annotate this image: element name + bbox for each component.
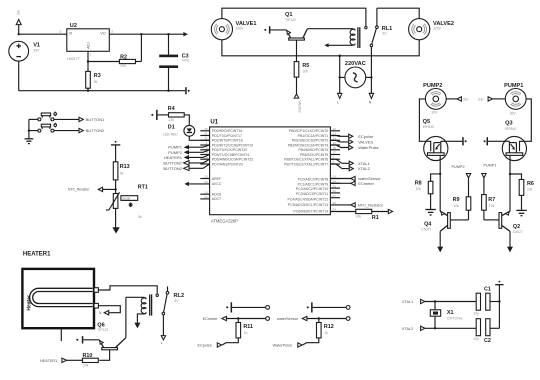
wire U2 VO to output	[109, 33, 183, 35]
power terminal above R13	[111, 141, 120, 162]
svg-text:ECpulse: ECpulse	[358, 134, 374, 139]
svg-text:R2: R2	[120, 54, 127, 60]
svg-text:33v: 33v	[17, 10, 21, 16]
svg-text:U1: U1	[210, 119, 218, 125]
svg-text:ECpulse: ECpulse	[198, 344, 212, 348]
ground rail bottom-left	[19, 90, 186, 92]
svg-text:C2: C2	[484, 338, 491, 344]
svg-text:BUTTON2: BUTTON2	[163, 166, 182, 171]
svg-text:WaterPulse: WaterPulse	[358, 145, 379, 150]
node bar terminal right of Q5	[448, 137, 467, 145]
resistor R3	[86, 62, 101, 92]
svg-text:V1: V1	[33, 42, 40, 48]
svg-text:HEATER1: HEATER1	[23, 252, 51, 258]
node ECpulse arrow right of U1	[330, 134, 374, 139]
node bar terminal left of Q3	[484, 137, 503, 145]
svg-text:220VAC: 220VAC	[345, 61, 366, 67]
svg-text:IRF840: IRF840	[423, 125, 434, 129]
wire V1 to U2	[19, 33, 67, 35]
svg-text:ECmeter: ECmeter	[358, 181, 374, 186]
svg-text:5V: 5V	[382, 32, 387, 36]
svg-text:27: 27	[332, 194, 336, 198]
svg-text:PC6/RESET/PCINT14: PC6/RESET/PCINT14	[293, 209, 328, 213]
node WaterSensor arrow right of U1	[330, 176, 381, 181]
wire heater top terminal to RL2 contact	[98, 286, 157, 294]
resistor R4	[168, 106, 190, 125]
svg-text:PD1/TXD/PCINT17: PD1/TXD/PCINT17	[212, 134, 242, 138]
svg-text:HEATER1: HEATER1	[164, 155, 183, 160]
node power arrow below RT1	[112, 227, 119, 233]
node VALVES arrow right of U1	[330, 139, 373, 144]
capacitor C3	[159, 34, 189, 92]
wire Q5 source junction	[439, 173, 441, 175]
svg-text:R10: R10	[83, 353, 93, 359]
svg-text:D1: D1	[168, 124, 175, 130]
svg-text:29: 29	[332, 208, 336, 212]
mcu U1 right pin stubs PC0-PC6	[330, 175, 340, 212]
node power arrow below Q2	[507, 247, 513, 253]
mcu U1 pin labels left	[212, 129, 253, 201]
node ECpulse arrow	[198, 343, 222, 348]
svg-text:X1: X1	[447, 310, 454, 316]
node bar terminal R11 circuit top	[226, 302, 266, 312]
node bar terminal at Q1 emitter	[264, 26, 286, 33]
wire V1 down to rail	[18, 61, 20, 91]
LED D1	[163, 124, 210, 140]
svg-text:PD7/AIN1/PCINT23: PD7/AIN1/PCINT23	[212, 162, 243, 166]
resistor R9	[453, 197, 471, 220]
svg-text:10k: 10k	[454, 204, 460, 208]
svg-text:CRYSTAL: CRYSTAL	[447, 317, 463, 321]
svg-text:PD4/T0/XCK/PCINT20: PD4/T0/XCK/PCINT20	[212, 148, 247, 152]
relay RL1	[324, 8, 392, 48]
ground bar terminal at rail end	[185, 87, 190, 94]
svg-text:PB5/SCK/PCINT5: PB5/SCK/PCINT5	[300, 153, 328, 157]
resistor R7	[482, 195, 496, 220]
svg-text:C5027: C5027	[421, 228, 431, 232]
svg-text:PB7/TOSC2/XTAL2/PCINT7: PB7/TOSC2/XTAL2/PCINT7	[284, 162, 328, 166]
svg-text:33v: 33v	[463, 97, 469, 101]
svg-text:PUMP1: PUMP1	[504, 83, 523, 89]
svg-text:XTAL2: XTAL2	[358, 166, 371, 171]
svg-text:LM317T: LM317T	[67, 57, 81, 61]
svg-text:10k: 10k	[489, 204, 495, 208]
svg-text:26: 26	[332, 189, 336, 193]
svg-text:5k: 5k	[120, 171, 124, 175]
wire Q5 source to Q4	[439, 174, 441, 211]
resistor R12	[303, 319, 334, 346]
svg-text:33V: 33V	[33, 49, 40, 53]
svg-text:VO: VO	[100, 32, 105, 36]
node WaterPulse arrow	[273, 343, 303, 348]
transistor Q1 TIP122	[285, 12, 307, 61]
node bar terminal R12 circuit top	[307, 302, 347, 312]
svg-text:1: 1	[90, 53, 92, 57]
svg-text:XTAL1: XTAL1	[358, 161, 371, 166]
svg-text:1k: 1k	[244, 331, 248, 335]
svg-text:220V: 220V	[433, 27, 442, 31]
node 33v terminal left of PUMP1	[478, 97, 505, 102]
svg-text:220V: 220V	[236, 27, 245, 31]
node HEATER1 terminal left of R10	[40, 358, 67, 363]
mcu U1 pin labels right	[284, 129, 328, 213]
svg-text:1k: 1k	[324, 331, 328, 335]
node ECmeter arrow	[203, 316, 266, 321]
svg-text:WaterPulse: WaterPulse	[273, 344, 292, 348]
svg-text:ADC7: ADC7	[212, 197, 221, 201]
svg-text:20: 20	[204, 175, 208, 179]
svg-text:22: 22	[204, 195, 208, 199]
resistor R1	[330, 209, 392, 221]
svg-text:R13: R13	[120, 164, 130, 170]
node output arrow 5V	[183, 32, 188, 36]
button BUTTON1	[29, 112, 105, 122]
wire Q3 source to Q2	[509, 174, 511, 211]
svg-text:BUTTON1: BUTTON1	[86, 117, 105, 122]
mcu U1 left pin stubs PD0-PD7	[200, 127, 209, 164]
node PUMP1 input terminal above R7	[482, 163, 497, 194]
node HEATER1 arrow left of U1	[164, 155, 210, 160]
probe electrode top R12	[346, 306, 350, 310]
crystal X1	[430, 302, 463, 329]
node ECmeter arrow right of U1	[330, 181, 374, 186]
node VALVES input terminal below R5	[294, 94, 301, 114]
node NTC_Resistor arrow right of U1	[330, 202, 383, 207]
svg-text:10k: 10k	[527, 187, 533, 191]
svg-text:5k: 5k	[138, 215, 142, 219]
svg-text:25: 25	[332, 184, 336, 188]
node bar terminal at Q6 emitter	[76, 336, 99, 343]
node BUTTON1 arrow left of U1	[163, 159, 209, 165]
svg-text:Q3: Q3	[505, 120, 512, 126]
node PUMP1 arrow left of U1	[168, 145, 209, 150]
svg-text:L: L	[161, 341, 163, 345]
resistor R5	[294, 62, 309, 94]
svg-text:PB1/OC1A/PCINT1: PB1/OC1A/PCINT1	[298, 134, 329, 138]
node NTC_Resistor terminal left	[68, 187, 116, 191]
svg-text:PD5/T1/OC0B/PCINT21: PD5/T1/OC0B/PCINT21	[212, 153, 250, 157]
svg-text:RT1: RT1	[138, 185, 148, 191]
resistor R8	[415, 174, 441, 210]
relay RL2	[126, 286, 184, 345]
svg-text:PC1/ADC1/PCINT9: PC1/ADC1/PCINT9	[298, 182, 329, 186]
svg-text:L: L	[337, 101, 339, 105]
svg-text:LED-RED: LED-RED	[163, 132, 178, 136]
svg-text:19: 19	[204, 190, 208, 194]
svg-text:PUMP2: PUMP2	[452, 165, 465, 169]
wire VALVE2 top rail	[377, 8, 419, 18]
node PUMP2 input terminal above R9	[452, 165, 471, 197]
svg-text:25.00: 25.00	[122, 197, 130, 201]
svg-text:BUTTON1: BUTTON1	[163, 160, 182, 165]
node 33v terminal right of PUMP2	[446, 97, 468, 102]
capacitor C1	[473, 286, 499, 315]
svg-text:PC0/ADC0/PCINT8: PC0/ADC0/PCINT8	[298, 178, 329, 182]
ground terminal above caps	[495, 281, 503, 285]
svg-text:PB4/MISO/PCINT4: PB4/MISO/PCINT4	[298, 148, 328, 152]
ground below buttons	[25, 139, 34, 144]
svg-text:IRF840: IRF840	[505, 127, 516, 131]
svg-text:R12: R12	[324, 324, 334, 330]
valve VALVE1	[211, 19, 256, 40]
svg-text:30: 30	[204, 127, 208, 131]
node XTAL2 arrow right of U1	[330, 164, 370, 171]
button BUTTON2	[29, 123, 105, 133]
svg-text:U2: U2	[70, 23, 77, 29]
svg-text:30V: 30V	[432, 111, 439, 115]
svg-text:C1: C1	[484, 286, 491, 292]
node XTAL1 terminal	[402, 299, 476, 304]
svg-text:R4: R4	[168, 106, 175, 112]
svg-text:ADC6: ADC6	[212, 193, 221, 197]
node waterSensor arrow	[277, 316, 346, 321]
wire VALVE1 top rail	[222, 8, 366, 26]
heater element tube	[30, 288, 99, 308]
mosfet Q3 IRF840	[502, 120, 526, 174]
svg-text:10k: 10k	[416, 187, 422, 191]
svg-text:R11: R11	[243, 324, 253, 330]
svg-text:220: 220	[169, 118, 175, 122]
regulator U2 LM317T	[67, 23, 113, 61]
mosfet Q5 IRF840	[423, 119, 448, 174]
svg-text:470u: 470u	[182, 59, 190, 63]
svg-text:XTAL1: XTAL1	[402, 300, 413, 304]
wire Q3 source junction	[509, 173, 511, 175]
svg-text:PC3/ADC3/PCINT11: PC3/ADC3/PCINT11	[296, 192, 328, 196]
svg-text:PB2/SS/OC1B/PCINT2: PB2/SS/OC1B/PCINT2	[292, 139, 328, 143]
svg-text:ADJ: ADJ	[86, 42, 90, 49]
wire PUMP2 to Q5 drain	[419, 99, 425, 141]
node power arrow below Q4	[437, 247, 443, 253]
svg-text:R6: R6	[527, 181, 534, 187]
heater box	[22, 269, 94, 328]
node XTAL1 arrow right of U1	[330, 159, 370, 166]
svg-text:NTC_Resistor: NTC_Resistor	[358, 202, 384, 207]
capacitor C2	[473, 319, 499, 344]
motor PUMP2	[423, 83, 446, 115]
transistor Q2 C5027	[484, 211, 523, 246]
svg-text:30V: 30V	[510, 112, 517, 116]
mcu U1 body	[210, 119, 331, 223]
voltage source V1	[9, 41, 40, 61]
source 220VAC	[339, 61, 372, 88]
svg-text:1: 1	[206, 141, 208, 145]
svg-text:R7: R7	[488, 197, 495, 203]
svg-text:waterSensor: waterSensor	[277, 317, 299, 321]
motor PUMP1	[504, 83, 526, 116]
svg-text:R9: R9	[453, 197, 460, 203]
svg-text:PB0/ICP1/CLKO/PCINT0: PB0/ICP1/CLKO/PCINT0	[289, 129, 328, 133]
svg-text:10p: 10p	[473, 311, 479, 315]
svg-text:PB3/MOSI/OC2A/PCINT3: PB3/MOSI/OC2A/PCINT3	[288, 143, 329, 147]
probe electrode bottom R12	[346, 317, 350, 321]
svg-text:12: 12	[332, 127, 336, 131]
node N terminal at heater bottom	[98, 306, 120, 315]
svg-text:10k: 10k	[302, 69, 308, 73]
svg-text:AVCC: AVCC	[212, 182, 222, 186]
node L terminal arrow	[338, 93, 342, 98]
node BUTTON2 arrow left of U1	[163, 164, 209, 171]
svg-text:230: 230	[120, 64, 126, 68]
svg-text:PD6/AIN0/OC0A/PCINT22: PD6/AIN0/OC0A/PCINT22	[212, 158, 253, 162]
svg-text:BUTTON2: BUTTON2	[86, 128, 105, 133]
wire buttons common	[28, 119, 30, 138]
resistor R6	[510, 174, 534, 210]
svg-text:ECmeter: ECmeter	[203, 317, 219, 321]
svg-text:PC2/ADC2/PCINT10: PC2/ADC2/PCINT10	[296, 187, 329, 191]
svg-text:TIP122: TIP122	[285, 18, 296, 22]
svg-text:PUMP2: PUMP2	[423, 83, 442, 89]
svg-text:Q5: Q5	[423, 119, 430, 125]
svg-text:2: 2	[111, 30, 113, 34]
probe electrode bottom R11	[266, 317, 270, 321]
ground below R8	[425, 210, 435, 216]
ground below R6	[516, 210, 526, 215]
wire caps to ground	[498, 285, 500, 329]
mcu U1 left lower stubs AREF AVCC ADC6 ADC7	[200, 175, 209, 199]
svg-text:VALVES: VALVES	[297, 100, 301, 113]
svg-text:AREF: AREF	[212, 177, 221, 181]
svg-text:R1: R1	[372, 215, 379, 221]
svg-text:5k: 5k	[94, 80, 98, 84]
thermistor RT1	[106, 185, 148, 228]
transistor Q4 C5027	[421, 211, 468, 246]
node bar terminal before R4	[151, 110, 168, 120]
resistor R11	[222, 319, 253, 346]
wire Q1 collector to RL1 coil	[307, 28, 352, 30]
svg-text:10k: 10k	[356, 214, 362, 218]
svg-text:PC4/ADC4/SDA/PCINT12: PC4/ADC4/SDA/PCINT12	[288, 198, 329, 202]
svg-text:10p: 10p	[473, 337, 479, 341]
node WaterPulse arrow right of U1	[330, 145, 379, 150]
svg-text:TIP122: TIP122	[97, 328, 108, 332]
node N terminal arrow	[369, 93, 373, 98]
node PUMP2 arrow left of U1	[168, 150, 209, 155]
svg-text:16: 16	[332, 146, 336, 150]
svg-text:PUMP1: PUMP1	[483, 163, 496, 167]
svg-text:3: 3	[60, 30, 62, 34]
svg-text:31: 31	[204, 132, 208, 136]
svg-text:XTAL2: XTAL2	[402, 327, 413, 331]
node AVCC power arrow	[184, 182, 209, 186]
mcu U1 right pin stubs PB0-PB7	[330, 127, 340, 164]
wire L line	[339, 56, 341, 94]
svg-text:PD3/INT1/OC2B/PCINT19: PD3/INT1/OC2B/PCINT19	[212, 143, 253, 147]
svg-text:ATMEGA328P: ATMEGA328P	[211, 219, 238, 224]
svg-text:VI: VI	[69, 32, 72, 36]
svg-text:PB6/TOSC1/XTAL1/PCINT6: PB6/TOSC1/XTAL1/PCINT6	[284, 158, 328, 162]
svg-text:17: 17	[332, 151, 336, 155]
svg-text:NTC_Resistor: NTC_Resistor	[68, 188, 90, 192]
wire heater box bottom stub	[60, 328, 62, 341]
svg-text:33v: 33v	[478, 97, 484, 101]
svg-text:PD0/RXD/PCINT16: PD0/RXD/PCINT16	[212, 129, 243, 133]
svg-text:10k: 10k	[83, 364, 89, 368]
svg-text:PC5/ADC5/SCL/PCINT13: PC5/ADC5/SCL/PCINT13	[288, 203, 328, 207]
svg-text:R3: R3	[94, 73, 101, 79]
svg-text:VALVES: VALVES	[358, 139, 373, 144]
valve VALVE2	[409, 19, 454, 40]
node XTAL2 terminal	[402, 326, 476, 331]
svg-text:C5027: C5027	[513, 230, 523, 234]
svg-text:32: 32	[204, 137, 208, 141]
probe electrode top R11	[266, 306, 270, 310]
svg-text:R5: R5	[302, 63, 309, 69]
svg-text:PD2/INT0/PCINT18: PD2/INT0/PCINT18	[212, 139, 243, 143]
resistor R13	[113, 162, 129, 194]
resistor R2	[88, 34, 141, 68]
transistor Q6 TIP122	[97, 297, 126, 360]
svg-text:R8: R8	[415, 180, 422, 186]
wire VALVE1 bottom rail	[222, 40, 419, 56]
svg-text:HEATER1: HEATER1	[40, 359, 57, 363]
resistor R10	[67, 353, 99, 368]
svg-text:5V: 5V	[174, 299, 179, 303]
wire relay N line	[370, 47, 372, 94]
node 33v terminal top-left	[16, 10, 21, 36]
wire PUMP1 to Q3 drain	[526, 99, 531, 141]
wire U2 ADJ down	[87, 51, 89, 61]
